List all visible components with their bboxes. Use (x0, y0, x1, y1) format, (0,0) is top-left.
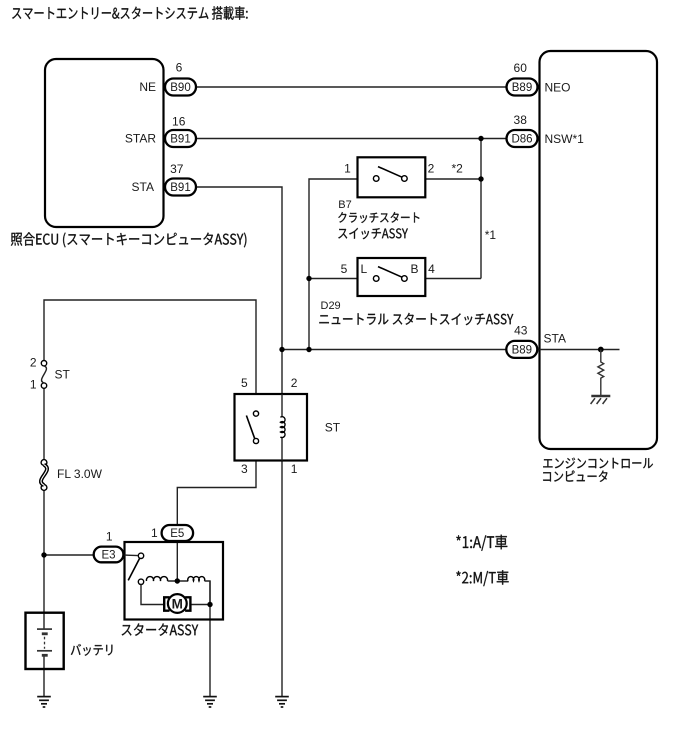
clutch start switch box B7 (358, 157, 426, 197)
svg-text:43: 43 (514, 324, 528, 338)
svg-text:4: 4 (428, 262, 435, 276)
relay contact circles (253, 411, 258, 444)
wire bus to B89 (282, 349, 506, 351)
label clutch start line2 (338, 228, 408, 239)
magnetic switch lower contact (138, 579, 143, 584)
junction E3 branch (41, 552, 46, 557)
svg-text:STA: STA (544, 332, 566, 346)
internal junction dot (598, 347, 604, 353)
wire NE to NEO (196, 86, 506, 88)
wire relay pin3 to E5 (177, 461, 256, 526)
svg-text:STAR: STAR (125, 132, 156, 146)
pull-in coil (146, 577, 167, 581)
note *1 A/T (456, 535, 507, 551)
junction bus at x309 (306, 347, 311, 352)
wire clutch pin2 to x481 (425, 178, 481, 180)
svg-text:38: 38 (514, 113, 528, 127)
label neutral start switch (319, 313, 513, 325)
wire B89 STA internal (540, 349, 620, 351)
svg-text:E5: E5 (170, 528, 184, 540)
svg-text:1: 1 (344, 162, 351, 176)
svg-text:L: L (361, 262, 368, 276)
svg-text:2: 2 (428, 162, 435, 176)
svg-text:ST: ST (55, 368, 71, 382)
svg-text:B89: B89 (512, 345, 532, 357)
ST connector circles (41, 361, 46, 389)
wire battery branch top (44, 300, 256, 394)
fusible link body (41, 465, 47, 485)
wire E5 down to coil junction (176, 541, 178, 581)
neutral switch contacts (373, 276, 407, 282)
svg-text:B7: B7 (338, 199, 351, 211)
svg-text:ST: ST (325, 420, 341, 434)
relay switch arm (246, 416, 254, 439)
svg-text:B90: B90 (170, 82, 190, 94)
label: engine control line1 (543, 458, 653, 469)
wire neutral pin5 left (309, 278, 358, 280)
wire x282 down to relay pin2 (281, 350, 283, 395)
motor brushes (164, 597, 190, 610)
svg-text:1: 1 (30, 378, 37, 392)
svg-text:5: 5 (241, 376, 248, 390)
svg-text:60: 60 (514, 61, 528, 75)
svg-text:5: 5 (341, 262, 348, 276)
svg-text:2: 2 (291, 376, 298, 390)
svg-text:M: M (172, 597, 183, 612)
connector B89 (STA) (506, 341, 537, 358)
verification ECU box (smart key computer) (45, 59, 164, 227)
connector B91 (STAR) (165, 130, 196, 147)
svg-text:B89: B89 (512, 82, 532, 94)
starter output junction (207, 602, 212, 607)
junction bus at x282 (279, 347, 284, 352)
wire FL down into battery (43, 488, 45, 630)
magnetic switch arm (128, 558, 139, 580)
svg-text:1: 1 (106, 530, 113, 544)
neutral switch arm (378, 267, 402, 278)
wire E3 to contact (123, 554, 138, 557)
wire motor to output (191, 604, 211, 606)
svg-text:37: 37 (170, 162, 184, 176)
svg-text:E3: E3 (101, 550, 115, 562)
wire battery to ground (43, 656, 45, 697)
wire clutch pin1 left (309, 179, 358, 350)
clutch switch contacts (373, 176, 407, 182)
svg-text:*1: *1 (485, 228, 497, 242)
ground (starter) (203, 697, 217, 707)
ground (battery) (37, 697, 51, 707)
svg-text:*2: *2 (452, 162, 464, 176)
svg-text:STA: STA (132, 180, 154, 194)
relay coil (281, 394, 283, 461)
svg-text:1: 1 (151, 526, 158, 540)
svg-text:B91: B91 (170, 134, 190, 146)
chassis ground (591, 396, 611, 404)
svg-text:16: 16 (172, 115, 186, 129)
ground (relay line) (275, 697, 289, 707)
svg-text:NEO: NEO (545, 81, 571, 95)
svg-text:D86: D86 (511, 134, 532, 146)
title text (12, 6, 247, 20)
connector B89 (NEO) (507, 79, 538, 96)
svg-text:3: 3 (241, 462, 248, 476)
wire coil right corner (205, 581, 211, 605)
svg-text:1: 1 (291, 462, 298, 476)
pull-down resistor (598, 350, 604, 396)
note *2 M/T (456, 570, 508, 586)
wire STAR to NSW (196, 138, 506, 140)
neutral start switch box D29 (358, 258, 426, 296)
svg-text:NSW*1: NSW*1 (545, 132, 585, 146)
svg-text:NE: NE (139, 80, 156, 94)
svg-text:FL 3.0W: FL 3.0W (57, 467, 103, 481)
wire starter output to ground (209, 581, 211, 697)
fusible link circles (41, 460, 47, 491)
clutch switch arm (378, 167, 402, 178)
wire lower contact to motor (141, 585, 164, 605)
magnetic switch upper contact (138, 553, 143, 558)
svg-text:B: B (410, 262, 418, 276)
junction neutral pin5 left (306, 276, 311, 281)
coil wire mid (168, 580, 189, 582)
connector B90 (NE) (165, 79, 196, 96)
svg-text:D29: D29 (321, 300, 341, 312)
label clutch start line1 (338, 212, 419, 223)
wire E3 branch (44, 554, 94, 556)
wire vertical x481 (NSW to switches) (480, 139, 482, 279)
starter relay box ST (235, 394, 308, 461)
hold-in coil (188, 577, 205, 581)
label: verification ECU (11, 232, 247, 247)
wire ST to FL (43, 386, 45, 462)
connector D86 (NSW) (507, 130, 538, 147)
starter assy box (125, 542, 224, 620)
battery label (71, 644, 113, 656)
wire STA-B91 right and down (196, 187, 282, 350)
label: engine control line2 (543, 471, 607, 482)
wire neutral pin4 to x481 (425, 278, 481, 280)
coil junction dot (175, 578, 180, 583)
svg-text:2: 2 (30, 356, 37, 370)
ST connector squiggle (42, 366, 47, 383)
battery plates (37, 629, 52, 655)
engine control computer box (540, 51, 658, 449)
junction x481 clutch pin2 (478, 176, 483, 181)
connector B91 (STA) (165, 179, 196, 196)
connector E5 (162, 525, 194, 541)
wire relay pin1 down to ground (281, 461, 283, 697)
starter assy label (122, 623, 199, 635)
motor circle (168, 594, 187, 613)
battery box (26, 613, 64, 669)
svg-text:6: 6 (176, 61, 183, 75)
connector E3 (94, 547, 124, 563)
svg-text:B91: B91 (170, 182, 190, 194)
junction x481 on NSW wire (478, 136, 483, 141)
